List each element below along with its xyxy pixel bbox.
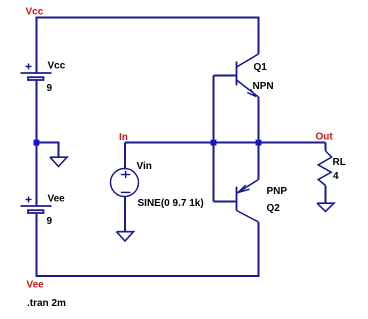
wire Vin stem bottom [124,196,126,231]
transistor Q2 emitter arrow [238,185,249,192]
svg-text:4: 4 [333,171,339,182]
svg-text:.tran 2m: .tran 2m [27,298,66,309]
battery V1 plus sign [26,64,32,70]
svg-text:Vcc: Vcc [48,61,66,72]
voltage source Vin minus sign [121,191,130,193]
svg-text:RL: RL [333,157,346,168]
transistor Q2 collector line [237,211,259,223]
svg-text:PNP: PNP [267,186,288,197]
wire bottom rail Vee [37,214,259,276]
ground symbol below Vin [117,232,134,241]
wire In/Out row [125,142,326,144]
battery V2 Vee symbol [21,206,52,213]
transistor Q2 PNP emitter stem [258,143,260,180]
svg-text:NPN: NPN [253,81,274,92]
transistor Q2 base wire [214,201,237,203]
junction node In row at emitter column [256,140,262,146]
svg-text:Vee: Vee [48,194,66,205]
wire RL to ground [325,186,327,204]
ground symbol between batteries [50,157,67,166]
transistor Q2 emitter line [237,180,259,194]
wire base column vertical [213,76,215,202]
wire Q1 emitter to In row [258,97,260,143]
wire left rail between batteries [36,81,38,206]
junction node In row at base column [211,140,217,146]
battery V1 Vcc symbol [21,73,52,80]
svg-text:9: 9 [47,216,53,227]
voltage source Vin plus sign [121,171,130,178]
transistor Q2 base bar [236,187,238,211]
battery V2 plus sign [26,197,32,203]
transistor Q1 emitter line [237,80,259,97]
transistor Q1 base wire [214,75,237,77]
voltage source Vin circle [111,169,139,197]
ground symbol below RL [317,203,334,211]
transistor Q1 NPN base bar [236,62,238,86]
svg-text:Out: Out [316,132,334,143]
svg-text:Vin: Vin [137,161,152,172]
junction node between batteries [34,140,40,146]
transistor Q1 collector line [237,54,259,67]
wire top rail Vcc [37,18,259,74]
wire Vin stem top [124,143,126,169]
svg-text:Vee: Vee [27,280,45,291]
svg-text:Q1: Q1 [254,62,268,73]
svg-text:Vcc: Vcc [26,7,44,18]
wire stub to ground between batteries [37,143,59,158]
wire Out corner to RL [325,143,327,151]
svg-text:Q2: Q2 [267,203,281,214]
svg-text:In: In [119,132,128,143]
svg-text:9: 9 [47,83,53,94]
svg-text:SINE(0 9.7 1k): SINE(0 9.7 1k) [138,198,204,209]
transistor Q1 emitter arrow [247,89,256,96]
resistor RL zigzag [318,151,331,186]
